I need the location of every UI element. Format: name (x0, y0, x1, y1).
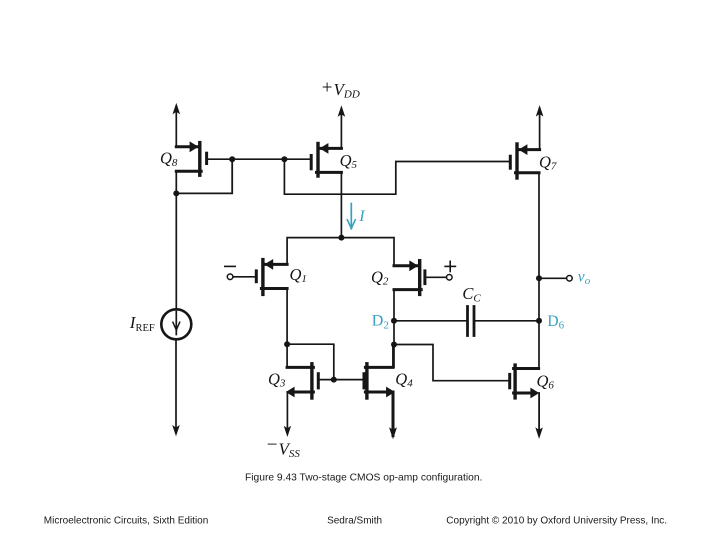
current source IREF (161, 309, 191, 339)
node vo (junction dot) (536, 275, 542, 281)
junction: gate bus / Q8 diode connection (229, 156, 235, 162)
wire: Q4 drain up to Q2 drain (392, 346, 394, 367)
svg-text:Q5: Q5 (340, 151, 358, 171)
wire: D2 to capacitor CC (394, 320, 466, 322)
svg-text:vo: vo (578, 269, 591, 287)
wire: Q5 drain to tail node (340, 172, 342, 237)
wire: right rail Q7 drain to Q6 drain (538, 173, 540, 369)
svg-text:Q6: Q6 (537, 371, 555, 391)
svg-text:IREF: IREF (129, 313, 155, 334)
svg-text:Sedra/Smith: Sedra/Smith (327, 515, 382, 526)
junction: Q2 drain / Q6 gate branch (391, 342, 397, 348)
wire: Q3 source to -VSS arrow (284, 392, 291, 437)
capacitor CC (468, 307, 475, 336)
transistor Q5 (PMOS tail current source, stubs to right) (311, 143, 341, 176)
wire: Q1 drain down to Q3 drain (286, 289, 288, 368)
power +VDD arrow above Q5 (338, 105, 346, 148)
current arrow I (cyan) (347, 204, 355, 229)
wire: Q4 source to -VSS arrow (thick) (389, 392, 397, 439)
transistor Q7 (PMOS output current source, stubs to right) (510, 144, 539, 178)
wire: capacitor CC to node D6 (475, 320, 539, 322)
wire: Q2/Q4 drain node to Q6 gate (394, 345, 508, 381)
transistor Q1 (PMOS input, stubs to right) (256, 259, 287, 294)
power +VDD arrow above Q7 (536, 105, 544, 150)
svg-text:Copyright © 2010 by Oxford Uni: Copyright © 2010 by Oxford University Pr… (446, 515, 667, 526)
svg-text:CC: CC (462, 284, 481, 305)
terminal: inverting input (227, 274, 233, 280)
svg-text:D6: D6 (547, 313, 564, 332)
wire: Q8 drain down to IREF (175, 171, 177, 309)
junction: Q8 drain / diode feedback (173, 190, 179, 196)
svg-text:+VDD: +VDD (322, 78, 360, 101)
svg-text:Microelectronic Circuits, Sixt: Microelectronic Circuits, Sixth Edition (44, 515, 209, 526)
terminal: non-inverting input (447, 275, 453, 281)
wire: IREF to -VSS arrow (172, 339, 180, 436)
svg-text:Q3: Q3 (268, 369, 286, 389)
transistor Q4 (NMOS mirror, stubs to right) (364, 364, 395, 398)
transistor Q2 (PMOS input, stubs to left) (394, 260, 425, 294)
junction: Q1/Q3 drain node (284, 341, 290, 347)
wire: tail rail to Q1/Q2 sources (287, 238, 394, 266)
junction: gate bus / diode connection (331, 377, 337, 383)
wire: Q2 gate lead (426, 276, 446, 278)
label plus sign (445, 261, 455, 271)
svg-text:Q4: Q4 (395, 369, 413, 389)
svg-text:D2: D2 (372, 313, 389, 332)
svg-text:Q7: Q7 (539, 152, 557, 172)
svg-text:I: I (358, 208, 365, 225)
node D2 (junction dot) (391, 318, 397, 324)
junction: tail node (338, 235, 344, 241)
terminal: output vo (567, 276, 573, 282)
wire: Q2 drain down to Q4 drain (393, 290, 395, 368)
wire: Q6 source to -VSS arrow (535, 393, 543, 439)
power +VDD arrow above Q8 (173, 103, 181, 147)
svg-text:Q8: Q8 (160, 149, 178, 169)
wire: bias line to Q7 gate (284, 159, 509, 194)
wire: Q1 gate lead (233, 276, 255, 278)
label minus sign (225, 265, 235, 267)
wire: gate bus Q3 to Q4 (318, 379, 364, 381)
wire: Q8 diode connection (gate to drain) (176, 159, 232, 193)
svg-text:Q1: Q1 (290, 265, 307, 285)
svg-text:Q2: Q2 (371, 267, 389, 287)
svg-text:−VSS: −VSS (267, 435, 301, 461)
transistor Q6 (NMOS output, stubs to right) (510, 365, 540, 398)
node D6 (junction dot) (536, 318, 542, 324)
wire: gate bus Q8 to Q5 (207, 158, 312, 160)
svg-text:Figure 9.43 Two-stage CMOS op-: Figure 9.43 Two-stage CMOS op-amp config… (245, 473, 482, 484)
junction: gate bus / bias wire to Q7 (281, 156, 287, 162)
transistor Q8 (PMOS, diode-connected, stubs to left) (176, 141, 206, 175)
wire: Q3 diode connection (drain to gate bus) (287, 344, 334, 379)
transistor Q3 (NMOS mirror, diode-connected, stubs to left) (286, 364, 319, 398)
wire: vo output lead (539, 277, 567, 279)
